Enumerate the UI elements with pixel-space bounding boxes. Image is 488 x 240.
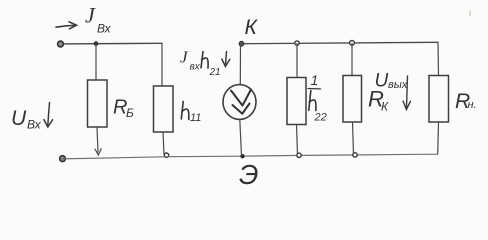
svg-text:U: U	[375, 71, 389, 92]
svg-text:21: 21	[209, 67, 221, 78]
label U_вых	[375, 71, 408, 92]
svg-text:К: К	[245, 16, 259, 39]
svg-text:1: 1	[311, 72, 319, 88]
arrow: U_вых down	[403, 76, 411, 110]
wire: h11 bottom lead	[163, 132, 164, 155]
svg-text:J: J	[85, 3, 96, 28]
node: junction of R_Б at top rail	[94, 41, 99, 46]
wire: R_Б top lead	[95, 44, 97, 80]
svg-text:К: К	[381, 100, 389, 114]
node: input top terminal	[58, 41, 64, 47]
node: junction under R_К	[353, 153, 357, 157]
svg-text:Вх: Вх	[27, 118, 42, 132]
node: input bottom terminal	[60, 156, 66, 162]
resistor R_Б	[88, 80, 108, 127]
wire: R_Н bottom lead	[437, 122, 440, 154]
svg-text:вых: вых	[388, 79, 408, 91]
label I_вх·h21 (controlled source value)	[180, 48, 221, 79]
current source (dependent source circle)	[223, 85, 256, 120]
wire: top-left rail	[61, 42, 162, 45]
current arrow I_вх (input current direction)	[56, 22, 77, 29]
wire: current source top lead	[239, 44, 241, 85]
wire: h11 top lead (corner of top-left rail)	[161, 43, 163, 86]
resistor 1/h22	[287, 78, 306, 125]
wire: bottom rail (emitter line)	[62, 154, 438, 159]
svg-text:Вх: Вх	[97, 22, 112, 36]
wire: 1/h22 top lead	[296, 43, 298, 77]
current source symbol: double chevron down	[231, 90, 251, 114]
wire: R_Н top lead (right corner of top rail)	[437, 42, 440, 75]
label R_Н	[455, 90, 477, 113]
resistor h11	[154, 86, 174, 132]
label R_К	[368, 87, 389, 114]
wire: R_Б bottom lead with down arrow	[95, 127, 101, 155]
arrow: source current down	[222, 52, 230, 67]
node: top of R_К	[350, 41, 355, 46]
faint smudge top right	[469, 11, 471, 17]
wire: 1/h22 bottom lead	[297, 125, 298, 155]
wire: R_К bottom lead	[353, 122, 354, 155]
resistor R_Н	[429, 76, 449, 123]
resistor R_К	[343, 76, 362, 123]
label U_вх	[11, 107, 42, 132]
label I_вх	[85, 3, 112, 36]
node: junction under current source	[240, 154, 244, 158]
wire: current source bottom lead	[240, 119, 242, 156]
svg-text:вх: вх	[190, 62, 201, 73]
svg-text:11: 11	[190, 112, 201, 124]
svg-text:22: 22	[314, 112, 327, 124]
label R_Б	[113, 97, 134, 121]
node: junction under h11	[164, 153, 168, 157]
svg-text:U: U	[11, 107, 27, 130]
svg-text:Э: Э	[239, 159, 258, 190]
arrow: U_вх down	[44, 103, 53, 128]
node: top of current source	[239, 41, 244, 46]
wire: top-right rail	[242, 42, 439, 43]
label 1/h22	[308, 72, 327, 124]
node: top of 1/h22	[295, 41, 299, 45]
svg-text:Б: Б	[126, 106, 134, 120]
label h11	[181, 102, 201, 125]
node: junction under 1/h22	[297, 153, 301, 157]
wire: R_К top lead	[351, 43, 353, 76]
svg-text:н.: н.	[468, 99, 477, 111]
